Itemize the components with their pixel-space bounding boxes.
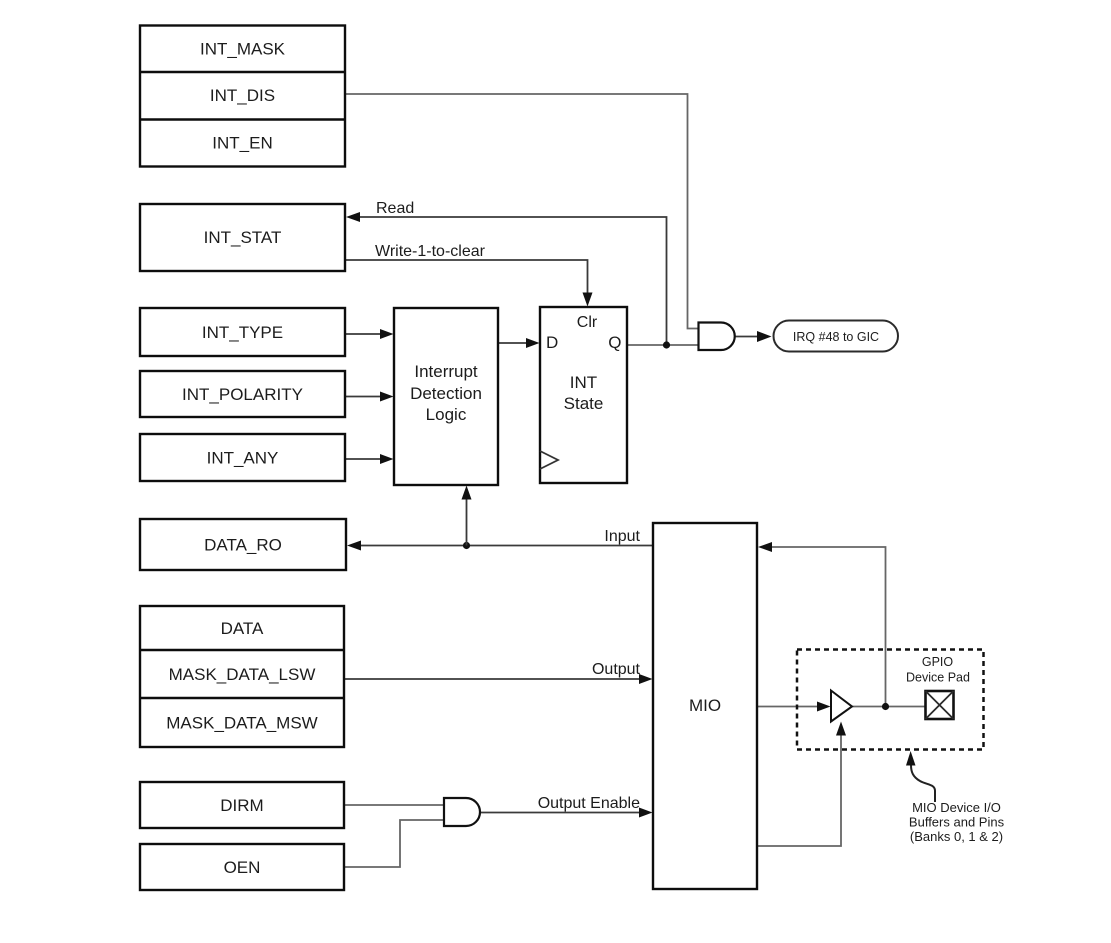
wire MIO output to buffer xyxy=(757,706,820,708)
svg-text:DATA_RO: DATA_RO xyxy=(204,536,282,555)
wire INT_ANY to detection logic xyxy=(345,458,383,460)
svg-text:MIO: MIO xyxy=(689,696,721,715)
buffer tri-state driver xyxy=(831,691,852,722)
register INT_STAT xyxy=(140,204,345,271)
block Interrupt Detection Logic xyxy=(394,308,498,485)
wire Input from MIO to DATA_RO xyxy=(357,545,653,547)
svg-text:DIRM: DIRM xyxy=(220,796,263,815)
svg-text:INT_TYPE: INT_TYPE xyxy=(202,323,283,342)
register stack DATA / MASK_DATA_LSW / MASK_DATA_MSW xyxy=(140,606,344,747)
svg-text:Interrupt: Interrupt xyxy=(414,362,478,381)
AND gate G2 xyxy=(444,798,480,826)
svg-text:Clr: Clr xyxy=(577,314,598,331)
svg-text:Detection: Detection xyxy=(410,384,482,403)
block MIO xyxy=(653,523,757,889)
svg-text:D: D xyxy=(546,333,558,352)
wire OEN to AND gate G2 xyxy=(344,820,444,867)
flip-flop INT State xyxy=(540,307,627,483)
wire AND G1 output to IRQ bubble xyxy=(735,336,759,338)
AND gate G1 xyxy=(699,322,735,350)
svg-text:IRQ #48 to GIC: IRQ #48 to GIC xyxy=(793,330,879,344)
svg-text:DATA: DATA xyxy=(221,619,264,638)
wire junction up into detection logic bottom xyxy=(466,496,468,546)
svg-text:Logic: Logic xyxy=(426,405,467,424)
wire buffer output to pad xyxy=(852,706,925,708)
svg-text:INT_ANY: INT_ANY xyxy=(207,449,279,468)
wire INT_DIS to AND gate G1 top input xyxy=(345,94,699,329)
arrowhead Clr down into flip-flop top xyxy=(583,293,593,307)
svg-text:Buffers and Pins: Buffers and Pins xyxy=(909,815,1005,830)
wire DIRM to AND gate G2 xyxy=(344,804,444,806)
node buffer output junction dot xyxy=(882,703,889,710)
wire INT_TYPE to detection logic xyxy=(345,333,383,335)
svg-text:INT: INT xyxy=(570,373,597,392)
register INT_ANY xyxy=(140,434,345,481)
svg-text:INT_DIS: INT_DIS xyxy=(210,86,275,105)
svg-text:Device Pad: Device Pad xyxy=(906,671,970,685)
register INT_TYPE xyxy=(140,308,345,356)
svg-text:MASK_DATA_MSW: MASK_DATA_MSW xyxy=(166,714,317,733)
node Q junction dot xyxy=(663,341,670,348)
svg-text:Read: Read xyxy=(376,200,414,217)
svg-text:INT_STAT: INT_STAT xyxy=(204,228,282,247)
register stack INT_MASK / INT_DIS / INT_EN xyxy=(140,26,345,167)
svg-text:INT_MASK: INT_MASK xyxy=(200,40,286,59)
arrowhead Read into INT_STAT xyxy=(346,212,360,222)
svg-text:Output: Output xyxy=(592,661,641,678)
GPIO device pad symbol xyxy=(926,691,954,719)
svg-text:Q: Q xyxy=(608,333,621,352)
register INT_POLARITY xyxy=(140,371,345,417)
svg-text:Input: Input xyxy=(604,528,640,545)
svg-text:MASK_DATA_LSW: MASK_DATA_LSW xyxy=(169,665,316,684)
wire Output Enable from G2 to MIO xyxy=(480,812,642,814)
dashed region MIO device I/O buffers xyxy=(797,650,984,750)
svg-text:GPIO: GPIO xyxy=(922,655,954,669)
terminal IRQ #48 to GIC xyxy=(774,321,899,352)
register DIRM xyxy=(140,782,344,828)
register OEN xyxy=(140,844,344,890)
wire output enable feedback from MIO bottom to buffer enable xyxy=(757,732,841,846)
wire Output from MASK_DATA_LSW to MIO xyxy=(344,678,642,680)
wire INT_POLARITY to detection logic xyxy=(345,396,383,398)
wire Read feedback (vertical from Q node up, then left into INT_STAT) xyxy=(356,217,667,345)
callout curved arrow to dashed region xyxy=(911,765,935,802)
svg-text:INT_POLARITY: INT_POLARITY xyxy=(182,385,303,404)
node input junction dot xyxy=(463,542,470,549)
svg-text:(Banks 0, 1 & 2): (Banks 0, 1 & 2) xyxy=(910,829,1003,844)
svg-text:MIO Device I/O: MIO Device I/O xyxy=(912,800,1001,815)
wire Write-1-to-clear from INT_STAT to Clr xyxy=(345,260,588,296)
svg-text:Write-1-to-clear: Write-1-to-clear xyxy=(375,243,486,260)
svg-text:OEN: OEN xyxy=(224,858,261,877)
svg-text:Output Enable: Output Enable xyxy=(538,795,640,812)
svg-text:INT_EN: INT_EN xyxy=(212,134,272,153)
wire pad feedback into MIO right side (input path) xyxy=(769,547,886,707)
wire detection logic to D input xyxy=(498,342,529,344)
wire Q output to AND gate G1 lower input xyxy=(627,344,699,346)
svg-text:State: State xyxy=(564,394,604,413)
clock edge triangle xyxy=(540,451,558,469)
register DATA_RO xyxy=(140,519,346,570)
